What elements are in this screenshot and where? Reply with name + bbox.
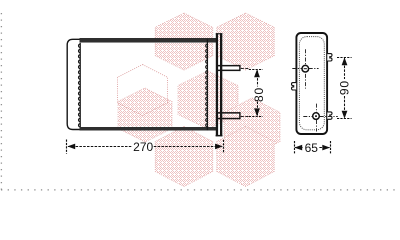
upper pipe end cap [239, 65, 240, 71]
dimension 65 line left segment [295, 147, 303, 149]
dimension 80 line lower segment [257, 102, 259, 116]
upper port centerline vertical [305, 49, 307, 88]
dimension 65 left arrowhead [294, 145, 302, 151]
end plate right line [220, 33, 222, 136]
watermark hexagon F4 (filled, middle-right half row) [224, 98, 280, 156]
dimension 65 left tick [294, 141, 296, 154]
dimension 80 up arrowhead [254, 69, 260, 77]
dimension 80 bottom tick [249, 116, 263, 118]
side view left mounting tab [292, 83, 297, 90]
side view right upper mounting tab [327, 54, 332, 61]
dimension 270 left tick [66, 140, 68, 154]
watermark hexagon F5 (filled, bottom row left) [155, 127, 213, 187]
right serration scallops [206, 44, 208, 127]
lower port center dot [315, 115, 317, 117]
lower port centerline vertical [316, 104, 318, 132]
dimension 65 right arrowhead [322, 145, 330, 151]
end plate top cap [216, 33, 223, 34]
dimension 90 up arrowhead [342, 57, 348, 65]
svg-text:90: 90 [337, 80, 351, 95]
upper port centerline horizontal [292, 68, 318, 70]
lower pipe bottom line [217, 118, 240, 120]
dimension 80 line upper segment [257, 71, 259, 87]
lower port circle [313, 113, 320, 120]
dimension 90 line upper segment [344, 58, 346, 79]
core bottom edge (thick) [80, 127, 217, 131]
dimension 270 right tick [223, 140, 225, 154]
watermark hexagon F3 (filled, middle row) [178, 71, 238, 129]
lower pipe top line [217, 112, 240, 114]
end plate left line [216, 33, 218, 136]
watermark hexagon O1 (outlined, middle row left) [118, 65, 168, 116]
watermark hexagon F7 (filled, left half row) [118, 88, 172, 142]
dimension 270 left arrowhead [67, 144, 75, 150]
end plate bottom cap [216, 135, 223, 137]
svg-text:80: 80 [252, 87, 266, 102]
dimension 80 top tick [249, 69, 263, 71]
dimension 270 right arrowhead [215, 144, 223, 150]
core top edge (thick) [80, 38, 217, 42]
side view inner contour (dotted) [299, 37, 324, 130]
upper port center mark [304, 68, 307, 70]
bottom border dotted line [1, 189, 400, 191]
dimension 270 line left segment [68, 146, 133, 148]
lower pipe centerline [241, 116, 249, 118]
dimension 80 down arrowhead [254, 108, 260, 116]
dimension 90 line lower segment [344, 96, 346, 118]
dimension 65 right tick [330, 141, 332, 154]
left border dotted line [0, 13, 2, 191]
side view outer body [296, 33, 327, 134]
heater core left tank (front view) [67, 39, 80, 129]
watermark hexagon F1 (filled, top row left) [155, 13, 213, 70]
lower port centerline horizontal [303, 116, 338, 118]
dimension 90 top tick [337, 57, 352, 59]
lower pipe end cap [239, 112, 240, 119]
upper pipe top line [217, 65, 240, 67]
side view right lower mounting tab [327, 112, 332, 119]
svg-text:65: 65 [305, 141, 319, 155]
watermark hexagon F2 (filled, top row right) [217, 13, 275, 70]
upper pipe bottom line [217, 70, 240, 72]
upper port circle [302, 65, 309, 72]
left tank serration scallops [78, 44, 80, 127]
right serration chord line [206, 39, 208, 130]
svg-text:270: 270 [133, 140, 153, 154]
dimension 65 line right segment [319, 147, 329, 149]
upper pipe centerline [241, 68, 249, 70]
watermark hexagon F6 (filled, bottom row right) [217, 127, 275, 187]
dimension 270 line right segment [154, 146, 223, 148]
left tank serration chord line [79, 39, 81, 129]
dimension 90 down arrowhead [342, 111, 348, 119]
dimension 90 bottom tick [337, 118, 352, 120]
